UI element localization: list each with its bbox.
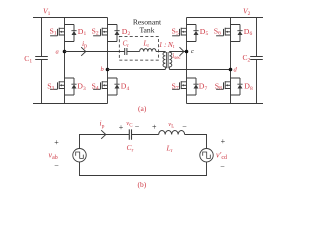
source v_cd circle — [200, 149, 213, 162]
switch S1 body arrow — [59, 31, 62, 33]
switch S4 MOSFET body — [93, 78, 117, 95]
wire: Lr to transformer primary — [156, 51, 165, 53]
svg-text:+: + — [221, 137, 226, 146]
current arrow i_p equivalent — [101, 130, 106, 139]
wire: secondary bottom to node d — [169, 69, 230, 71]
diode D7 of S7 — [193, 78, 198, 95]
switch S5 MOSFET body — [172, 25, 196, 42]
inductor Lr coil — [140, 49, 156, 52]
switch S4 body arrow — [102, 84, 105, 86]
wire: S3 source to bottom rail — [64, 95, 66, 104]
switch S5 body arrow — [181, 31, 184, 33]
diode D4 of S4 — [114, 78, 119, 95]
switch S2 MOSFET body — [93, 25, 117, 42]
switch S1 MOSFET body — [50, 25, 74, 42]
wire: bottom return — [80, 162, 207, 176]
transformer core lines — [167, 52, 169, 68]
svg-text:+: + — [54, 138, 59, 147]
svg-text:−: − — [135, 123, 140, 132]
svg-text:c: c — [191, 48, 194, 55]
diode D3 of S3 — [71, 78, 76, 95]
switch S8 body arrow — [225, 84, 228, 86]
wire: S8 source to bottom rail — [230, 95, 232, 104]
wire: S4 source to bottom rail — [107, 95, 109, 104]
dashed box resonant tank — [119, 37, 158, 61]
source v_ab circle — [73, 149, 86, 162]
diode D5 of S5 — [193, 25, 198, 42]
wire: primary bottom from node b — [108, 69, 166, 71]
wire: equivalent circuit top left segment — [80, 135, 130, 149]
switch S3 body arrow — [59, 84, 62, 86]
capacitor C2 — [250, 18, 263, 104]
svg-text:+: + — [119, 123, 124, 132]
switch S3 MOSFET body — [50, 78, 74, 95]
wire: leg S2 drain from rail — [107, 18, 109, 25]
wire: leg3 midsection through node c — [186, 42, 188, 79]
wire: node a to Cr — [65, 51, 125, 53]
node d junction dot — [229, 68, 233, 72]
svg-text:−: − — [220, 162, 225, 171]
square wave glyph in v_ab — [76, 152, 84, 158]
svg-text:−: − — [182, 122, 187, 131]
square wave glyph in v_cd — [203, 152, 211, 158]
node b junction dot — [106, 68, 110, 72]
switch S6 MOSFET body — [216, 25, 240, 42]
wire: leg S1 drain from rail — [64, 18, 66, 25]
switch S7 MOSFET body — [172, 78, 196, 95]
switch S8 MOSFET body — [216, 78, 240, 95]
inductor Lr equivalent coil — [159, 131, 185, 135]
svg-text:(b): (b) — [138, 180, 147, 189]
transformer secondary winding — [169, 52, 171, 70]
wire: bottom DC rail (right bridge) — [187, 103, 264, 105]
svg-text:1 : Nt: 1 : Nt — [159, 40, 175, 50]
node a junction dot — [63, 50, 67, 54]
switch S2 body arrow — [102, 31, 105, 33]
transformer primary winding — [163, 52, 165, 70]
diode D8 of S8 — [237, 78, 242, 95]
current arrow i_p on wire a — [81, 47, 86, 56]
wire: leg1 midsection through node a — [64, 42, 66, 79]
svg-text:Tank: Tank — [139, 25, 154, 34]
svg-text:a: a — [56, 48, 59, 55]
capacitor C1 — [35, 18, 48, 104]
current arrow i_sec — [180, 47, 184, 56]
capacitor Cr — [125, 48, 127, 55]
wire: bottom DC rail (left bridge) — [33, 103, 108, 105]
svg-text:+: + — [152, 123, 157, 132]
switch S6 body arrow — [225, 31, 228, 33]
wire: secondary top to node c — [169, 51, 186, 53]
wire: top DC rail (left bridge) — [33, 17, 108, 19]
diode D2 of S2 — [114, 25, 119, 42]
wire: top DC rail (right bridge) — [187, 17, 264, 19]
wire: S7 source to bottom rail — [186, 95, 188, 104]
diode D1 of S1 — [71, 25, 76, 42]
wire: leg S6 drain from rail — [230, 18, 232, 25]
switch S7 body arrow — [181, 84, 184, 86]
svg-text:(a): (a) — [138, 104, 147, 113]
wire: leg S5 drain from rail — [186, 18, 188, 25]
wire: Cr to Lr — [127, 51, 140, 53]
diode D6 of S6 — [237, 25, 242, 42]
wire: Lr to right source — [185, 135, 207, 149]
wire: Cr to Lr equivalent — [132, 134, 159, 136]
node c junction dot — [185, 50, 189, 54]
wire: leg4 midsection through node d — [230, 42, 232, 79]
svg-text:−: − — [54, 161, 59, 170]
wire: leg2 midsection through node b — [107, 42, 109, 79]
capacitor Cr equivalent — [129, 129, 131, 139]
